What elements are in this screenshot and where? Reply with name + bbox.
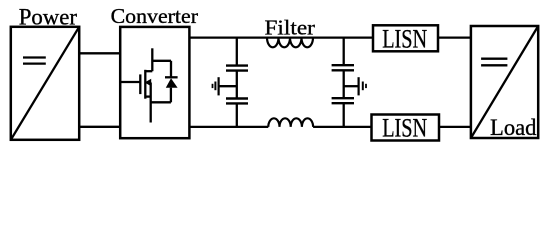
wire Power to Converter top [79,52,120,54]
diode D1 cathode bar [165,76,178,78]
svg-text:Filter: Filter [265,16,315,40]
wire source to diode [151,101,171,103]
capacitor branch right lower lead [343,103,345,127]
transistor Q1 gate lead [121,81,140,83]
wire Power to Converter bottom [79,126,120,128]
bottom rail wire mid [313,126,371,128]
transistor Q1 source stub [145,95,150,97]
ground left (chassis, pointing left) [218,77,220,95]
diode D1 anode lead [170,88,172,103]
inductor L1 (top, bumps down) [267,38,313,48]
svg-text:Converter: Converter [111,4,198,28]
capacitor branch right upper lead [343,38,345,66]
transistor Q1 channel bar [144,70,146,99]
capacitor branch right middle lead [343,70,345,98]
wire LISN top to Load [438,36,471,38]
capacitor C4 plates [332,97,354,99]
LISN box top [373,25,438,51]
transistor Q1 body arrow [145,79,152,87]
capacitor C2 plates [226,97,248,99]
transistor Q1 source lead [150,83,152,123]
capacitor C1 plates [226,64,248,66]
Load diagonal [471,26,538,138]
wire LISN bottom to Load [439,126,471,128]
capacitor C3 plates [332,64,354,66]
top rail wire [189,36,373,38]
DC source block (Power) [11,27,79,140]
Converter block [120,27,189,138]
diode D1 triangle [166,78,178,87]
svg-text:LISN: LISN [382,112,427,142]
Power diagonal [11,27,79,140]
Load DC symbol = [481,58,507,60]
capacitor branch left middle lead [236,71,238,99]
Load block [471,26,538,138]
transistor Q1 drain lead [151,48,153,71]
transistor Q1 gate bar [139,74,141,94]
ground right (chassis, pointing right) [358,77,360,95]
transistor Q1 drain stub [145,70,152,72]
wire drain to diode [152,60,171,62]
bottom rail wire left [189,126,268,128]
capacitor branch left lower lead [236,103,238,127]
svg-text:Load: Load [490,115,537,141]
capacitor branch left upper lead [236,38,238,66]
svg-text:LISN: LISN [382,23,427,53]
Power DC symbol = [23,56,46,58]
LISN box bottom [372,115,440,141]
diode D1 cathode lead [170,61,172,78]
wire to left ground [219,85,237,87]
inductor L2 (bottom, bumps up) [268,118,313,127]
wire to right ground [344,85,359,87]
